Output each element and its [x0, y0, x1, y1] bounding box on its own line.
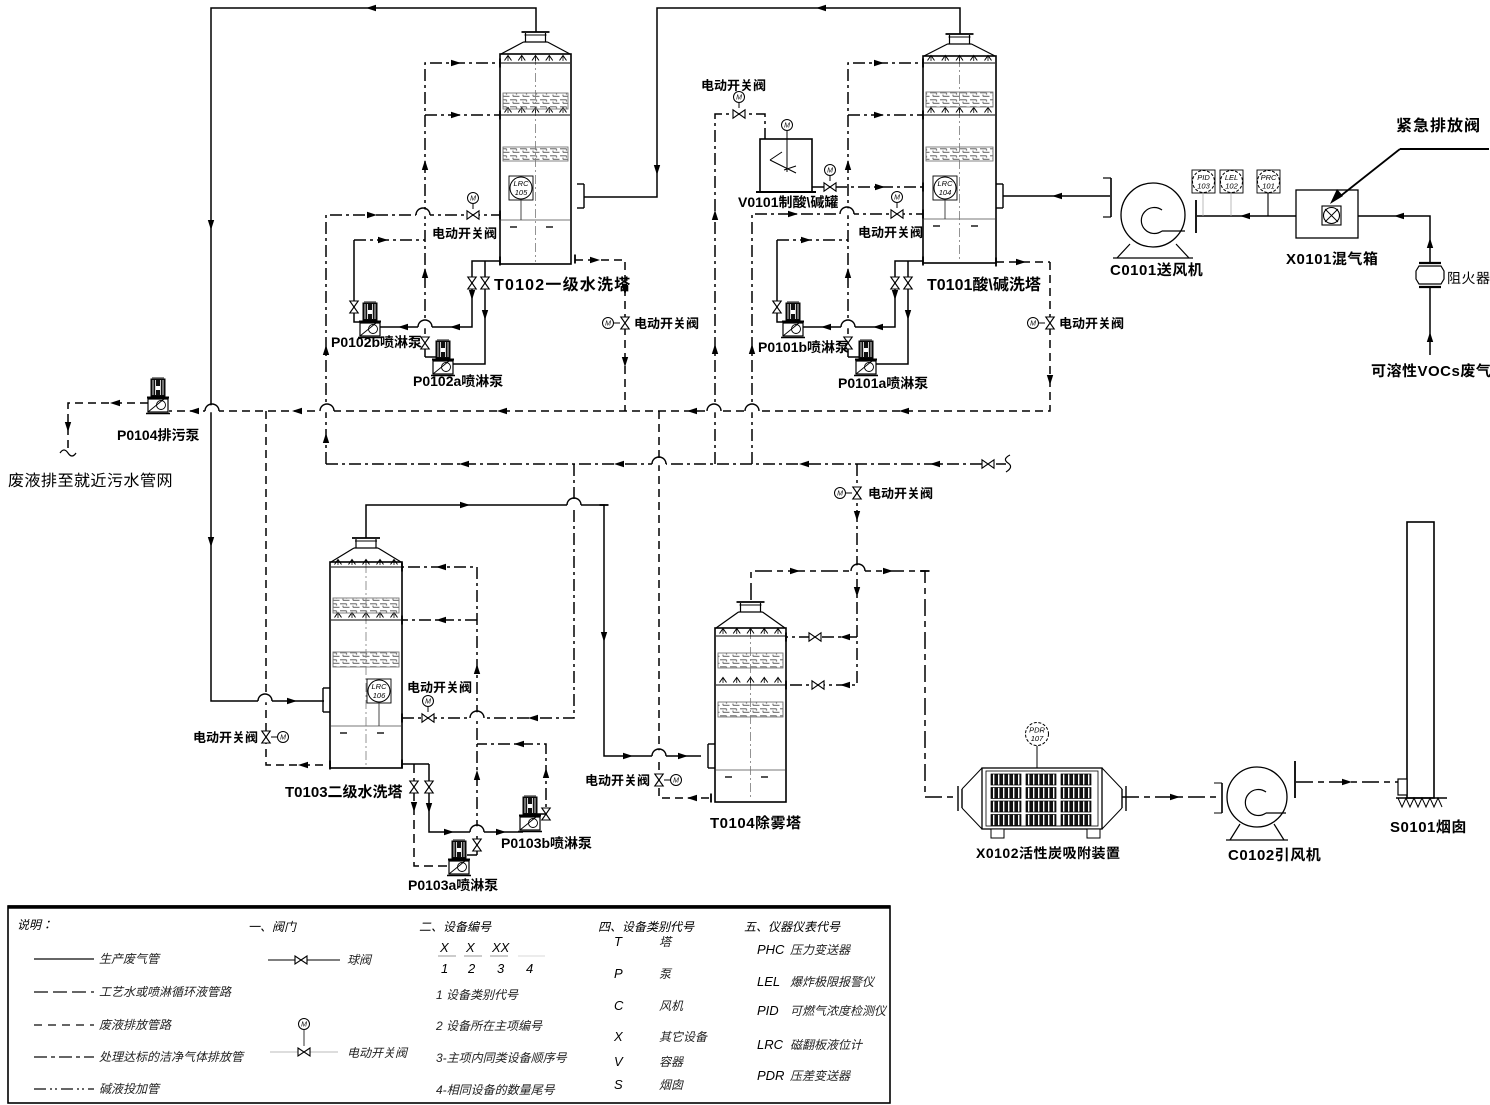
- svg-text:105: 105: [515, 188, 528, 197]
- motor valve on tank V0101 outlet: [824, 183, 836, 191]
- svg-text:1: 1: [441, 961, 448, 976]
- svg-text:爆炸极限报警仪: 爆炸极限报警仪: [790, 975, 876, 989]
- instrument LEL-102: [1220, 170, 1243, 193]
- wire T0103 bottom outlet stub: [402, 763, 429, 765]
- svg-text:PID: PID: [757, 1003, 779, 1018]
- wire water feed to T0101 sump: [752, 214, 923, 464]
- svg-text:X0101混气箱: X0101混气箱: [1286, 251, 1378, 268]
- svg-text:2 设备所在主项编号: 2 设备所在主项编号: [435, 1019, 543, 1033]
- svg-text:LRC: LRC: [513, 179, 529, 188]
- svg-text:说明：: 说明：: [17, 918, 53, 932]
- svg-text:电动开关阀: 电动开关阀: [868, 486, 933, 501]
- wire water feed to T0102 sump: [326, 215, 500, 464]
- svg-text:废液排至就近污水管网: 废液排至就近污水管网: [8, 472, 173, 490]
- svg-text:T0101酸\碱洗塔: T0101酸\碱洗塔: [927, 276, 1041, 294]
- svg-text:阻火器: 阻火器: [1447, 270, 1490, 286]
- wire waste T0104 bottom drain: [659, 411, 711, 798]
- tower T0102 gas outlet bracket: [583, 184, 585, 208]
- svg-text:处理达标的洁净气体排放管: 处理达标的洁净气体排放管: [99, 1050, 245, 1064]
- wire waste T0102 bottom drain: [575, 260, 625, 411]
- svg-text:M: M: [280, 735, 286, 742]
- svg-text:LRC: LRC: [757, 1037, 784, 1052]
- svg-text:M: M: [605, 321, 611, 328]
- pipe connection ticks on tower walls: [499, 59, 501, 68]
- pump P0101b spray pump: [787, 301, 799, 303]
- svg-text:C: C: [614, 998, 624, 1013]
- tower T0104 demister tower: [737, 601, 765, 603]
- ball valve P0101a line: [844, 337, 852, 349]
- svg-text:泵: 泵: [659, 967, 673, 981]
- svg-text:烟囱: 烟囱: [659, 1078, 684, 1092]
- wire spray water to T0104: [786, 464, 857, 685]
- wire clean gas X0102 to fan C0102: [1122, 796, 1221, 798]
- svg-text:M: M: [784, 123, 790, 130]
- svg-text:C0101送风机: C0101送风机: [1110, 262, 1203, 279]
- ball valve T0102 drain drop 1: [468, 277, 476, 289]
- svg-text:P0103b喷淋泵: P0103b喷淋泵: [501, 835, 592, 851]
- svg-text:紧急排放阀: 紧急排放阀: [1396, 117, 1481, 135]
- svg-text:压差变送器: 压差变送器: [790, 1069, 851, 1083]
- wire waste pump P0104 discharge to sewer: [68, 403, 148, 452]
- tower T0104 gas inlet bracket: [707, 744, 709, 768]
- ball valve T0101 drain drop 1: [891, 277, 899, 289]
- wire P0101b suction drop: [777, 240, 787, 322]
- svg-text:电动开关阀: 电动开关阀: [407, 680, 472, 695]
- wire gas T0101 overhead line to T0102: [584, 8, 960, 197]
- svg-text:104: 104: [939, 188, 952, 197]
- ball valve T0104 spray branch 1: [809, 633, 821, 641]
- svg-text:四、设备类别代号: 四、设备类别代号: [598, 920, 695, 934]
- motor valve on T0102 drain: [621, 317, 629, 329]
- svg-text:M: M: [425, 699, 431, 706]
- wire P0102 loop top: [354, 239, 425, 241]
- ball valve P0103b discharge: [542, 808, 550, 820]
- wire gas X0101 to fan C0101: [1197, 215, 1296, 217]
- svg-text:2: 2: [467, 961, 476, 976]
- svg-text:五、仪器仪表代号: 五、仪器仪表代号: [744, 920, 841, 934]
- wire P0103a suction drop: [414, 764, 451, 866]
- wire alkali fill line to tank V0101: [715, 114, 765, 464]
- wire gas VOCs inlet to X0101: [1429, 288, 1431, 355]
- unit X0102 activated carbon adsorber: [982, 768, 1102, 829]
- pump P0103b spray pump: [524, 795, 536, 797]
- svg-text:电动开关阀: 电动开关阀: [858, 225, 923, 240]
- motor valve on T0103 drain: [422, 714, 434, 722]
- ball valve T0104 spray branch 2: [812, 681, 824, 689]
- wire T0102 spray riser and branches: [425, 63, 500, 357]
- svg-text:4-相同设备的数量尾号: 4-相同设备的数量尾号: [436, 1083, 556, 1097]
- legend box: [8, 906, 890, 1103]
- motor valve on T0101 water feed: [891, 210, 903, 218]
- ball valve T0102 drain drop 2: [481, 277, 489, 289]
- instrument PID-103: [1192, 170, 1215, 193]
- wire P0101 loop top: [777, 239, 848, 241]
- svg-text:M: M: [827, 168, 833, 175]
- svg-text:废液排放管路: 废液排放管路: [99, 1018, 172, 1032]
- svg-text:C0102引风机: C0102引风机: [1228, 847, 1321, 864]
- svg-text:一、阀门: 一、阀门: [248, 920, 297, 934]
- svg-text:X: X: [465, 940, 476, 955]
- svg-text:P0104排污泵: P0104排污泵: [117, 427, 199, 443]
- wire P0103b discharge: [477, 744, 546, 814]
- svg-text:M: M: [894, 195, 900, 202]
- wire clean gas T0104 overhead to X0102: [751, 571, 957, 797]
- wire P0102 pumps suction from T0102 bottom: [377, 261, 500, 327]
- stack S0101: [1407, 522, 1434, 798]
- svg-text:M: M: [736, 95, 742, 102]
- svg-text:XX: XX: [491, 940, 511, 955]
- svg-text:P0101b喷淋泵: P0101b喷淋泵: [758, 339, 849, 355]
- ball valve P0103b suction: [425, 781, 433, 793]
- svg-text:X0102活性炭吸附装置: X0102活性炭吸附装置: [976, 845, 1120, 861]
- svg-text:LRC: LRC: [371, 682, 387, 691]
- pipe bridge crossings: [258, 695, 272, 702]
- wire waste T0101 bottom drain: [996, 261, 1050, 263]
- svg-text:P0101a喷淋泵: P0101a喷淋泵: [838, 375, 928, 391]
- tank V0101 acid-alkali prep tank: [760, 139, 812, 192]
- svg-text:电动开关阀: 电动开关阀: [1059, 316, 1124, 331]
- svg-text:T0102一级水洗塔: T0102一级水洗塔: [494, 276, 631, 294]
- fan C0101 supply fan: [1121, 183, 1185, 247]
- svg-text:球阀: 球阀: [347, 953, 373, 967]
- motor valve on T0104 spray line: [853, 487, 861, 499]
- wire T0103 drain to water main: [402, 464, 574, 718]
- svg-text:M: M: [301, 1022, 307, 1029]
- svg-text:磁翻板液位计: 磁翻板液位计: [790, 1038, 864, 1052]
- svg-text:容器: 容器: [659, 1055, 684, 1069]
- emergency relief valve pointer: [1400, 148, 1489, 150]
- motor valve on T0102 water feed: [467, 211, 479, 219]
- svg-text:LRC: LRC: [937, 179, 953, 188]
- svg-text:4: 4: [526, 961, 533, 976]
- pump P0102b spray pump: [364, 301, 376, 303]
- wire clean gas fan C0102 to stack S0101: [1296, 781, 1398, 783]
- svg-text:PHC: PHC: [757, 942, 785, 957]
- svg-text:M: M: [470, 196, 476, 203]
- svg-text:PDR: PDR: [757, 1068, 784, 1083]
- pump P0102a spray pump: [437, 339, 449, 341]
- tower T0102 first-stage water scrubber: [522, 31, 550, 33]
- wire water supply main: [326, 463, 982, 465]
- svg-text:P0102b喷淋泵: P0102b喷淋泵: [331, 334, 422, 350]
- svg-text:X: X: [613, 1029, 624, 1044]
- svg-text:V0101制酸\碱罐: V0101制酸\碱罐: [738, 194, 838, 210]
- ball valve P0102b suction: [350, 301, 358, 313]
- ball valve P0102a line: [421, 337, 429, 349]
- pump P0101a spray pump: [860, 339, 872, 341]
- svg-text:碱液投加管: 碱液投加管: [99, 1082, 161, 1096]
- svg-text:其它设备: 其它设备: [659, 1030, 708, 1044]
- wire P0103b suction: [429, 764, 523, 832]
- svg-text:T0103二级水洗塔: T0103二级水洗塔: [285, 784, 403, 801]
- motor valve on T0103 left drain: [262, 731, 270, 743]
- svg-text:电动开关阀: 电动开关阀: [701, 78, 766, 93]
- instrument PRC-101: [1257, 170, 1280, 193]
- pump P0104 drain pump: [152, 377, 164, 379]
- wire P0101a suction drop: [873, 261, 908, 364]
- svg-text:M: M: [1030, 321, 1036, 328]
- svg-text:生产废气管: 生产废气管: [99, 952, 161, 966]
- ball valve on water main end: [982, 460, 994, 468]
- svg-text:LEL: LEL: [757, 974, 780, 989]
- svg-text:T0104除雾塔: T0104除雾塔: [710, 815, 802, 832]
- motor valve on T0104 drain: [655, 774, 663, 786]
- motor valve on V0101 fill line: [733, 110, 745, 118]
- instrument PDR-107: [1026, 723, 1049, 746]
- svg-text:可溶性VOCs废气: 可溶性VOCs废气: [1371, 363, 1490, 380]
- svg-text:V: V: [614, 1054, 624, 1069]
- svg-text:M: M: [837, 491, 843, 498]
- tower T0103 second-stage water scrubber: [352, 537, 380, 539]
- wire P0103a discharge: [467, 854, 477, 856]
- svg-text:107: 107: [1031, 734, 1044, 743]
- wire water supply main valved end with break: [996, 463, 1006, 465]
- wire T0103 spray riser and branches: [402, 567, 477, 855]
- fan C0102 induced draft fan: [1227, 767, 1287, 827]
- tower T0101 gas outlet bracket: [1002, 184, 1004, 208]
- svg-text:P: P: [614, 966, 623, 981]
- svg-text:102: 102: [1225, 182, 1238, 191]
- svg-text:S0101烟囱: S0101烟囱: [1390, 819, 1467, 836]
- wire gas fan C0101 to T0101: [1003, 195, 1110, 197]
- wire gas T0103 overhead to T0104: [366, 505, 701, 756]
- svg-text:X: X: [439, 940, 450, 955]
- svg-text:M: M: [673, 778, 679, 785]
- ball valve T0103 riser: [473, 839, 481, 851]
- svg-text:电动开关阀: 电动开关阀: [585, 773, 650, 788]
- wire gas T0102 overhead line to T0103: [211, 8, 536, 701]
- svg-text:1 设备类别代号: 1 设备类别代号: [436, 988, 519, 1002]
- svg-text:电动开关阀: 电动开关阀: [193, 730, 258, 745]
- tower T0101 acid-alkali scrubber: [946, 33, 974, 35]
- svg-text:101: 101: [1262, 182, 1275, 191]
- motor valve on T0101 drain: [1046, 317, 1054, 329]
- svg-text:3-主项内同类设备顺序号: 3-主项内同类设备顺序号: [436, 1051, 568, 1065]
- tower T0103 gas inlet bracket: [322, 688, 324, 712]
- wire P0101 pumps suction from T0101 bottom: [800, 261, 923, 327]
- svg-text:3: 3: [497, 961, 505, 976]
- svg-text:103: 103: [1197, 182, 1210, 191]
- wire waste main drain header to pump P0104: [169, 262, 1050, 411]
- ball valve T0101 drain drop 2: [904, 277, 912, 289]
- ball valve P0103a suction: [410, 781, 418, 793]
- wire waste T0103 left drain: [266, 411, 324, 765]
- svg-text:S: S: [614, 1077, 623, 1092]
- svg-text:塔: 塔: [659, 935, 673, 949]
- svg-text:风机: 风机: [659, 999, 684, 1013]
- svg-text:T: T: [614, 934, 623, 949]
- svg-text:106: 106: [373, 691, 386, 700]
- svg-text:P0103a喷淋泵: P0103a喷淋泵: [408, 877, 498, 893]
- wire P0102b suction drop: [354, 240, 364, 322]
- wire P0102a suction drop: [450, 261, 485, 364]
- svg-text:压力变送器: 压力变送器: [790, 943, 851, 957]
- wire T0101 spray riser and branches: [848, 63, 923, 357]
- svg-text:二、设备编号: 二、设备编号: [419, 920, 492, 934]
- svg-text:电动开关阀: 电动开关阀: [634, 316, 699, 331]
- wire gas inside T0104 inlet stub: [715, 755, 750, 757]
- wire P0101a discharge: [848, 356, 859, 358]
- svg-text:电动开关阀: 电动开关阀: [432, 226, 497, 241]
- pump P0103a spray pump: [453, 839, 465, 841]
- svg-text:电动开关阀: 电动开关阀: [347, 1046, 409, 1060]
- flame arrester: [1419, 262, 1441, 264]
- wire tank V0101 outlet to T0101: [812, 186, 923, 188]
- ball valve P0101b suction: [773, 301, 781, 313]
- svg-text:可燃气浓度检测仪: 可燃气浓度检测仪: [790, 1004, 888, 1018]
- wire P0102a discharge: [425, 356, 436, 358]
- svg-text:工艺水或喷淋循环液管路: 工艺水或喷淋循环液管路: [99, 985, 232, 999]
- svg-text:P0102a喷淋泵: P0102a喷淋泵: [413, 373, 503, 389]
- box X0101 gas mixing box: [1296, 190, 1358, 238]
